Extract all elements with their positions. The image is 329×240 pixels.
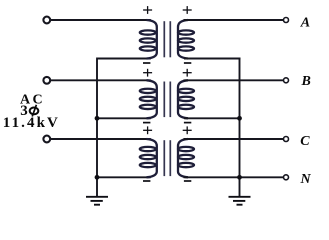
wire T2 secondary bottom (184, 117, 241, 119)
terminal B (284, 78, 289, 83)
svg-text:A: A (300, 15, 310, 30)
polarity minus T1 secondary (184, 62, 191, 64)
wire input 1 (51, 19, 151, 21)
terminal input 2 (43, 77, 50, 84)
junction primary bus T3 (95, 175, 100, 180)
terminal C (284, 137, 289, 142)
polarity minus T2 secondary (184, 122, 191, 124)
polarity plus T1 secondary (183, 6, 192, 14)
wire primary neutral bus (96, 59, 98, 196)
transformer T3 primary coil (140, 139, 157, 177)
transformer T1 core (164, 21, 170, 57)
transformer T3 core (164, 140, 170, 176)
transformer T3 secondary coil (178, 139, 194, 177)
polarity plus T3 secondary (183, 126, 192, 134)
polarity plus T2 secondary (183, 69, 192, 77)
wire secondary C (184, 138, 284, 140)
transformer T1 secondary coil (178, 20, 194, 59)
ground left (86, 197, 108, 205)
terminal A (284, 18, 289, 23)
polarity plus T3 primary (143, 126, 152, 134)
wire T1 secondary bottom (184, 58, 241, 60)
label 3-phi (20, 103, 38, 119)
wire secondary neutral bus (239, 59, 241, 196)
wire secondary B (184, 79, 284, 81)
transformer T2 primary coil (140, 80, 157, 118)
svg-text:B: B (301, 74, 311, 89)
wire secondary N (184, 176, 284, 178)
polarity minus T1 primary (143, 62, 150, 64)
wire T2 primary bottom (97, 117, 151, 119)
svg-text:N: N (300, 172, 312, 187)
terminal input 3 (43, 136, 50, 143)
wire input 3 (51, 138, 151, 140)
svg-text:11.4kV: 11.4kV (3, 115, 60, 131)
transformer T2 secondary coil (178, 80, 194, 118)
polarity minus T2 primary (143, 122, 150, 124)
polarity plus T2 primary (143, 69, 152, 77)
transformer T2 core (164, 82, 170, 118)
terminal input 1 (43, 17, 50, 24)
polarity minus T3 secondary (184, 180, 191, 182)
polarity minus T3 primary (143, 180, 150, 182)
junction secondary bus N (237, 175, 242, 180)
junction secondary bus T2 (237, 116, 242, 121)
ground right (229, 197, 251, 205)
svg-text:C: C (300, 134, 310, 149)
wire T1 primary bottom (96, 58, 151, 60)
transformer T1 primary coil (140, 20, 157, 59)
terminal N (284, 175, 289, 180)
junction primary bus T2 (95, 116, 100, 121)
wire secondary A (184, 19, 284, 21)
wire input 2 (51, 79, 151, 81)
wire T3 primary bottom (97, 176, 151, 178)
polarity plus T1 primary (143, 6, 152, 14)
